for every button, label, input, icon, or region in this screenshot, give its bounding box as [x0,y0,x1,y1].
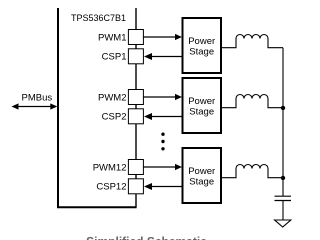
wire PWM1 to power stage (arrow) [144,34,183,40]
svg-text:PWM1: PWM1 [98,32,127,43]
inductor L2 with output wire [222,95,284,108]
pin box PWM2 [128,90,143,105]
wire CSP2 from power stage (arrow) [144,113,182,120]
svg-text:PMBus: PMBus [22,93,53,104]
ground [275,220,291,227]
svg-text:Simplified Schematic: Simplified Schematic [86,235,207,240]
wire PMBus bidirectional arrow [12,103,58,109]
power stage block PS1 [183,18,222,73]
svg-text:CSP12: CSP12 [96,182,126,193]
svg-text:Stage: Stage [189,47,214,58]
pin box PWM1 [128,30,143,45]
power stage block PS2 [183,78,222,133]
svg-text:CSP2: CSP2 [102,112,127,123]
pin box CSP1 [128,49,143,64]
wire CSP1 from power stage (arrow) [144,53,182,60]
svg-text:PWM2: PWM2 [98,92,127,103]
inductor L3 with output wire [222,165,284,178]
svg-text:TPS536C7B1: TPS536C7B1 [71,13,126,23]
wire PWM2 to power stage (arrow) [144,94,183,100]
svg-text:CSP1: CSP1 [102,52,127,63]
svg-text:Stage: Stage [189,107,214,118]
svg-text:PWM12: PWM12 [93,162,127,173]
capacitor C1 [275,196,292,200]
svg-text:Stage: Stage [189,177,214,188]
controller U1 TPS536C7B1 outline [58,8,137,207]
pin box CSP2 [128,109,143,124]
wire capacitor to ground [282,201,284,220]
inductor L1 with output wire [222,35,284,48]
ellipsis dots [161,133,164,151]
power stage block PS3 [183,148,222,203]
wire output rail [282,48,284,197]
pin box PWM12 [128,160,143,175]
wire PWM12 to power stage (arrow) [144,164,183,170]
wire CSP12 from power stage (arrow) [144,183,182,190]
junction node ch2 [281,106,285,110]
pin box CSP12 [128,179,143,194]
junction node ch3 [281,176,285,180]
